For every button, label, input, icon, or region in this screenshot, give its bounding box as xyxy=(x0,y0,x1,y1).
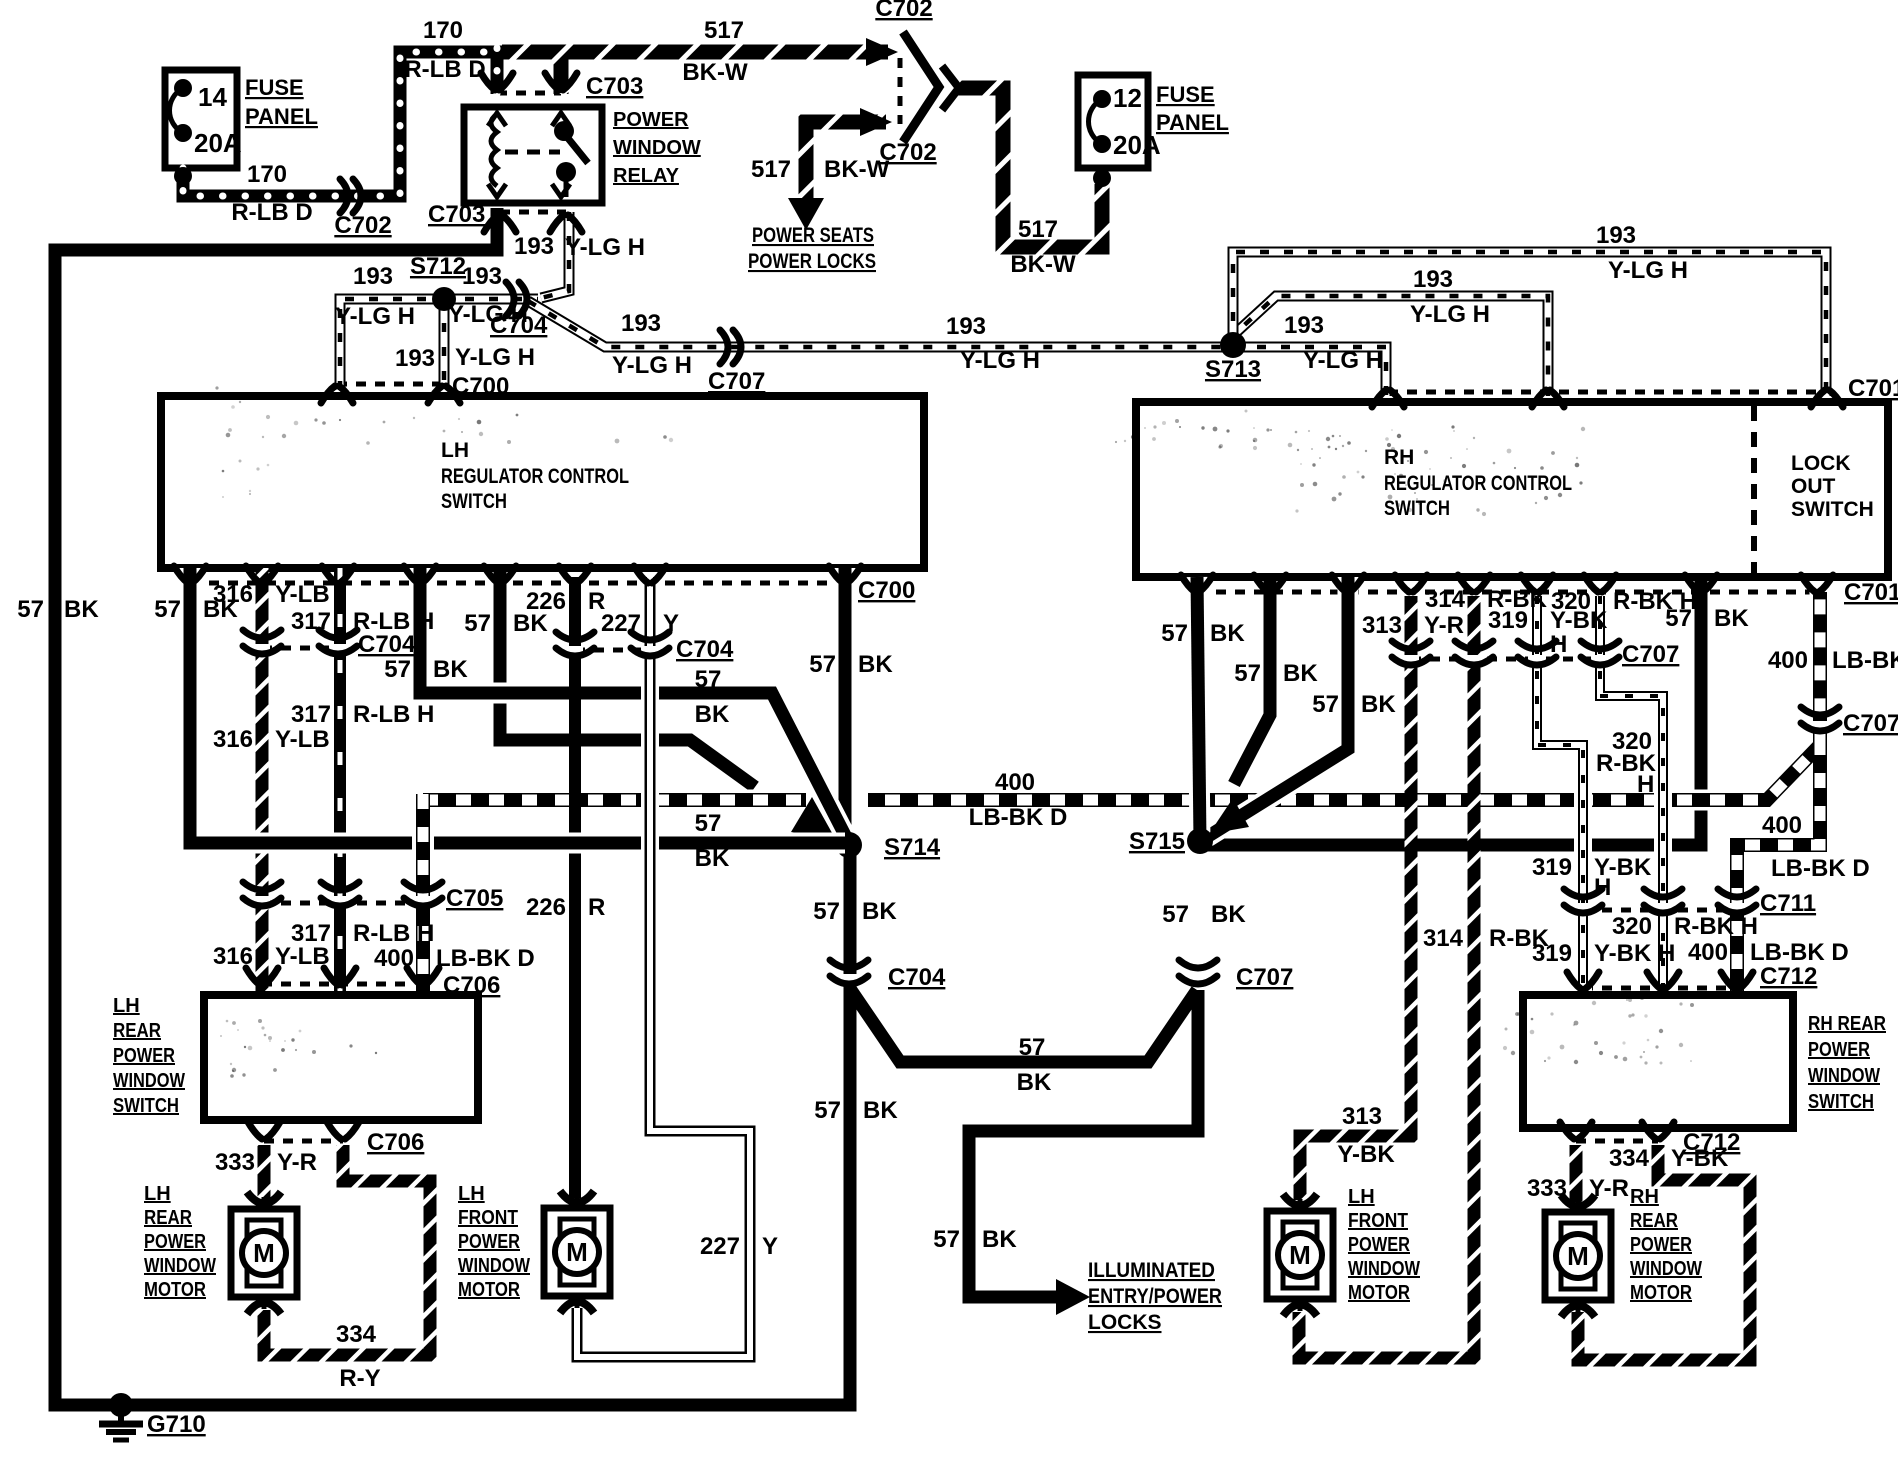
C700 top row dashed link xyxy=(337,382,444,387)
relay coil xyxy=(491,114,497,186)
svg-text:BK: BK xyxy=(1361,691,1396,718)
ground G710 symbol xyxy=(109,1393,133,1417)
svg-text:LB-BK D: LB-BK D xyxy=(969,804,1068,831)
svg-text:REAR: REAR xyxy=(1630,1210,1678,1232)
svg-text:RH REAR: RH REAR xyxy=(1808,1013,1886,1035)
svg-text:FRONT: FRONT xyxy=(458,1207,518,1229)
svg-text:G710: G710 xyxy=(147,1411,206,1438)
svg-text:57: 57 xyxy=(813,898,840,925)
svg-text:316: 316 xyxy=(213,943,253,970)
svg-text:334: 334 xyxy=(1609,1145,1650,1172)
svg-text:POWER: POWER xyxy=(1808,1039,1870,1061)
fuse 12 symbol xyxy=(1093,90,1111,108)
svg-text:193: 193 xyxy=(514,233,554,260)
wire 193 Y-LG H S713 right branch to C701 xyxy=(1233,347,1386,396)
LH regulator control switch box xyxy=(161,396,924,568)
wire 227 Y LH pin 7 to LH front window motor (hollow) xyxy=(577,577,750,1357)
svg-text:REGULATOR CONTROL: REGULATOR CONTROL xyxy=(1384,472,1572,495)
svg-text:Y-LG H: Y-LG H xyxy=(335,303,415,330)
wire 313 Y-BK RH pin 4 to LH front motor (right) xyxy=(1300,596,1411,1200)
arrow to illuminated entry/power locks xyxy=(1056,1279,1090,1315)
svg-text:57: 57 xyxy=(1665,605,1692,632)
svg-text:Y-R: Y-R xyxy=(1589,1175,1629,1202)
svg-text:C706: C706 xyxy=(443,972,500,999)
svg-text:POWER: POWER xyxy=(613,109,689,131)
LH front power window motor (RH circuit) pins xyxy=(1283,1194,1317,1206)
svg-text:BK: BK xyxy=(433,656,468,683)
C704 row dashed link (226/227) xyxy=(575,648,650,653)
svg-text:SWITCH: SWITCH xyxy=(441,490,507,513)
wire 334 Y-BK RH rear switch to RH rear motor bottom xyxy=(1578,1145,1750,1360)
C703 bottom pins xyxy=(484,215,498,232)
svg-text:57: 57 xyxy=(1234,660,1261,687)
svg-text:S713: S713 xyxy=(1205,356,1261,383)
C701 bottom row dashed link xyxy=(1197,590,1817,595)
wire 517 BK-W C702 to fuse panel 2 xyxy=(955,88,1102,247)
wire 57 BK S715 up to RH pin 1 xyxy=(1197,577,1200,841)
svg-text:57: 57 xyxy=(695,666,722,693)
C711 pairs xyxy=(1575,903,1591,911)
svg-text:MOTOR: MOTOR xyxy=(458,1279,520,1301)
LH front power window motor (RH circuit) armature xyxy=(1283,1222,1317,1242)
svg-text:Y-LB: Y-LB xyxy=(275,726,330,753)
wire 170 R-LB D relay drop xyxy=(491,48,504,94)
svg-text:PANEL: PANEL xyxy=(245,104,318,129)
wire 193 Y-LG H relay to C704 xyxy=(541,212,569,298)
svg-text:POWER LOCKS: POWER LOCKS xyxy=(748,250,876,273)
svg-text:57: 57 xyxy=(1312,691,1339,718)
svg-text:LB-BK D: LB-BK D xyxy=(1771,855,1870,882)
svg-text:227: 227 xyxy=(601,610,641,637)
svg-text:S715: S715 xyxy=(1129,828,1185,855)
svg-text:317: 317 xyxy=(291,701,331,728)
svg-text:Y-BK: Y-BK xyxy=(1337,1141,1395,1168)
wire 226 R LH pin 6 to LH front window motor xyxy=(569,577,581,1198)
svg-text:WINDOW: WINDOW xyxy=(144,1255,216,1277)
svg-text:R-LB H: R-LB H xyxy=(353,701,434,728)
svg-text:BK: BK xyxy=(695,845,730,872)
wire 400 LB-BK D branch to C711/C712 xyxy=(1737,740,1820,991)
svg-text:20A: 20A xyxy=(194,128,242,158)
LH front power window motor pins xyxy=(560,1191,594,1203)
svg-text:Y-LG H: Y-LG H xyxy=(565,234,645,261)
svg-text:SWITCH: SWITCH xyxy=(1791,498,1874,521)
RH rear power window switch box xyxy=(1523,995,1793,1128)
svg-text:Y-R: Y-R xyxy=(277,1149,317,1176)
C705 pairs xyxy=(254,896,270,904)
svg-text:BK: BK xyxy=(862,898,897,925)
LH front power window motor armature xyxy=(560,1219,594,1239)
svg-text:C707: C707 xyxy=(1622,641,1679,668)
C707 pair on 400 to lock out switch xyxy=(1812,721,1828,729)
C707 pairs on RH wires xyxy=(1403,655,1419,663)
wire 170 R-LB D from fuse panel 1 to relay xyxy=(183,52,506,196)
relay bottom arrows xyxy=(488,184,506,197)
svg-text:PANEL: PANEL xyxy=(1156,110,1229,135)
svg-text:Y-LG H: Y-LG H xyxy=(960,347,1040,374)
fuse panel 1 box (fuse 14) xyxy=(165,70,237,168)
C703 top row dashed link xyxy=(497,91,561,96)
svg-text:517: 517 xyxy=(1018,216,1058,243)
svg-text:LH: LH xyxy=(144,1183,171,1205)
svg-text:57: 57 xyxy=(809,651,836,678)
svg-text:RH: RH xyxy=(1630,1186,1659,1208)
C707 row dashed link (RH) xyxy=(1411,657,1600,662)
svg-text:193: 193 xyxy=(462,263,502,290)
svg-text:226: 226 xyxy=(526,588,566,615)
svg-text:226: 226 xyxy=(526,894,566,921)
svg-text:LOCKS: LOCKS xyxy=(1088,1311,1162,1334)
svg-text:170: 170 xyxy=(247,161,287,188)
C700 bottom pin row under LH switch xyxy=(174,566,188,583)
svg-text:400: 400 xyxy=(1688,939,1728,966)
wire 193 Y-LG H S713 middle branch to C701 xyxy=(1227,296,1548,396)
arrowhead wire 517 into C702 top xyxy=(866,38,898,66)
C706 lower row dashed link xyxy=(264,1139,343,1144)
svg-text:C704: C704 xyxy=(676,636,734,663)
C711 row dashed link xyxy=(1583,908,1737,913)
svg-text:316: 316 xyxy=(213,726,253,753)
C706 row dashed link xyxy=(262,982,423,987)
svg-text:BK: BK xyxy=(1283,660,1318,687)
svg-text:57: 57 xyxy=(814,1097,841,1124)
svg-text:BK: BK xyxy=(1017,1069,1052,1096)
svg-text:C704: C704 xyxy=(490,312,548,339)
svg-text:193: 193 xyxy=(1413,266,1453,293)
svg-text:FUSE: FUSE xyxy=(1156,82,1215,107)
svg-text:M: M xyxy=(253,1238,275,1268)
svg-text:C706: C706 xyxy=(367,1129,424,1156)
C704 pair on 316/317 xyxy=(254,644,270,652)
svg-text:Y-LB: Y-LB xyxy=(275,581,330,608)
LH rear power window motor armature xyxy=(247,1220,281,1240)
relay contact xyxy=(554,121,574,141)
C704 pair on 226/227 xyxy=(567,646,583,654)
C705 row dashed link xyxy=(262,901,423,906)
svg-text:BK: BK xyxy=(695,701,730,728)
svg-text:M: M xyxy=(566,1237,588,1267)
C712 lower pins under RH rear switch xyxy=(1560,1122,1574,1139)
relay link (dashed) xyxy=(505,150,560,155)
svg-text:Y-BK H: Y-BK H xyxy=(1594,940,1675,967)
C701 bottom pin row under RH switch xyxy=(1181,575,1195,592)
wire 517 BK-W to power seats/power locks xyxy=(806,122,886,198)
svg-text:M: M xyxy=(1567,1241,1589,1271)
wire 320 R-BK H RH pin 7 to RH rear switch xyxy=(1600,596,1663,991)
svg-text:C700: C700 xyxy=(858,577,915,604)
svg-text:WINDOW: WINDOW xyxy=(1348,1258,1420,1280)
C702 connector dashed link xyxy=(898,58,903,124)
svg-text:C704: C704 xyxy=(888,964,946,991)
svg-text:57: 57 xyxy=(17,596,44,623)
wire 333 Y-R LH rear switch to LH rear motor xyxy=(258,1145,271,1200)
svg-text:C707: C707 xyxy=(708,368,765,395)
wire 517 BK-W relay to C702 xyxy=(502,45,888,60)
arrow to power seats xyxy=(788,198,824,230)
C707 inline connector on wire 193 xyxy=(720,330,728,364)
svg-text:Y-BK: Y-BK xyxy=(1671,1145,1729,1172)
svg-text:OUT: OUT xyxy=(1791,475,1836,498)
wire 57 BK RH pin 3 diagonal to S715 (over bus) xyxy=(1207,577,1348,837)
svg-text:193: 193 xyxy=(1596,222,1636,249)
svg-text:RH: RH xyxy=(1384,446,1414,469)
wire 57 BK LH pin 4 to S714 (over bus) xyxy=(420,568,849,843)
LH rear power window motor pins xyxy=(247,1192,281,1204)
C704 inline connector on wire 193 xyxy=(506,282,514,316)
svg-text:R-Y: R-Y xyxy=(339,1365,380,1392)
C701 top row dashed link xyxy=(1388,390,1827,395)
svg-text:LOCK: LOCK xyxy=(1791,452,1851,475)
svg-text:POWER: POWER xyxy=(1348,1234,1410,1256)
fuse panel 2 box (fuse 12) xyxy=(1078,75,1148,168)
svg-text:WINDOW: WINDOW xyxy=(458,1255,530,1277)
svg-text:C702: C702 xyxy=(334,212,391,239)
svg-text:LH: LH xyxy=(1348,1186,1375,1208)
wire 57 BK RH pin 8 to bottom run to S715 xyxy=(1205,577,1701,845)
wire 517 BK-W relay stub xyxy=(554,46,569,94)
C703 bottom row dashed link xyxy=(500,210,566,215)
wire 57 BK bar LH pin 1 to S714 xyxy=(190,568,845,843)
svg-text:193: 193 xyxy=(621,310,661,337)
arrowhead into S714 xyxy=(791,797,836,840)
svg-text:C705: C705 xyxy=(446,885,503,912)
svg-text:12: 12 xyxy=(1113,83,1142,113)
svg-text:WINDOW: WINDOW xyxy=(1630,1258,1702,1280)
svg-text:317: 317 xyxy=(291,608,331,635)
svg-text:314: 314 xyxy=(1425,586,1466,613)
svg-text:FUSE: FUSE xyxy=(245,75,304,100)
svg-text:Y: Y xyxy=(762,1233,778,1260)
svg-text:BK: BK xyxy=(1714,605,1749,632)
LH rear power window switch box xyxy=(204,995,478,1120)
C707 pair at S715 branch xyxy=(1190,974,1206,982)
svg-text:517: 517 xyxy=(751,156,791,183)
svg-text:C712: C712 xyxy=(1760,963,1817,990)
svg-text:C707: C707 xyxy=(1236,964,1293,991)
C701 top pins xyxy=(1372,390,1386,407)
wire 57 BK RH pin 2 diagonal into S715 (under bus) xyxy=(1234,577,1270,784)
svg-text:Y-LG H: Y-LG H xyxy=(1608,257,1688,284)
svg-text:C702: C702 xyxy=(875,0,932,22)
C704 pair at S714 branch xyxy=(841,974,857,982)
svg-text:REAR: REAR xyxy=(144,1207,192,1229)
svg-text:57: 57 xyxy=(1019,1034,1046,1061)
svg-text:BK-W: BK-W xyxy=(682,59,748,86)
svg-text:193: 193 xyxy=(946,313,986,340)
LH rear power window motor box xyxy=(231,1209,297,1297)
svg-text:LB-BK D: LB-BK D xyxy=(1750,939,1849,966)
svg-text:400: 400 xyxy=(1768,647,1808,674)
C703 top pins xyxy=(481,73,495,90)
scan noise speckles xyxy=(1385,437,1389,441)
svg-text:C703: C703 xyxy=(586,73,643,100)
svg-text:Y-LG H: Y-LG H xyxy=(1410,301,1490,328)
svg-text:R-BK H: R-BK H xyxy=(1674,913,1758,940)
svg-text:C711: C711 xyxy=(1760,890,1816,917)
svg-text:227: 227 xyxy=(700,1233,740,1260)
svg-text:LB-BK D: LB-BK D xyxy=(436,945,535,972)
svg-text:334: 334 xyxy=(336,1321,377,1348)
svg-text:LH: LH xyxy=(113,995,140,1017)
wire 57 BK LH pin 8 to S714 (over bus) xyxy=(835,568,856,846)
svg-text:Y-LB: Y-LB xyxy=(275,943,330,970)
svg-text:320: 320 xyxy=(1551,588,1591,615)
C712 top row dashed link xyxy=(1583,986,1737,991)
wire 57 BK illuminated entry branch from C707 xyxy=(969,990,1198,1297)
svg-text:193: 193 xyxy=(395,345,435,372)
svg-text:R: R xyxy=(588,894,605,921)
C712 pins into RH rear switch xyxy=(1567,972,1581,989)
fuse 14 symbol xyxy=(174,79,192,97)
wire 317 R-LB H LH pin 3 to LH rear switch xyxy=(334,568,346,991)
power window relay box xyxy=(464,107,602,203)
svg-text:57: 57 xyxy=(695,810,722,837)
svg-text:REGULATOR CONTROL: REGULATOR CONTROL xyxy=(441,465,629,488)
svg-text:57: 57 xyxy=(464,610,491,637)
RH rear power window motor pins xyxy=(1561,1195,1595,1207)
svg-text:MOTOR: MOTOR xyxy=(1630,1282,1692,1304)
svg-text:320: 320 xyxy=(1612,913,1652,940)
svg-text:C700: C700 xyxy=(452,373,509,400)
C700 bottom row dashed link xyxy=(190,581,845,586)
svg-text:BK: BK xyxy=(64,596,99,623)
svg-text:S714: S714 xyxy=(884,834,941,861)
svg-text:REAR: REAR xyxy=(113,1020,161,1042)
svg-text:C707: C707 xyxy=(1843,710,1898,737)
svg-text:SWITCH: SWITCH xyxy=(1384,497,1450,520)
svg-text:313: 313 xyxy=(1362,612,1402,639)
LH front power window motor box xyxy=(544,1208,610,1296)
svg-text:Y-LG H: Y-LG H xyxy=(612,352,692,379)
svg-text:SWITCH: SWITCH xyxy=(1808,1091,1874,1113)
svg-text:POWER SEATS: POWER SEATS xyxy=(752,224,874,247)
svg-text:20A: 20A xyxy=(1113,130,1161,160)
svg-text:313: 313 xyxy=(1342,1103,1382,1130)
svg-text:333: 333 xyxy=(1527,1175,1567,1202)
C712 lower row dashed link xyxy=(1576,1139,1658,1144)
svg-text:319: 319 xyxy=(1488,607,1528,634)
junction S714 xyxy=(836,832,862,858)
C702 inline connector on wire 170 xyxy=(340,179,348,213)
svg-text:MOTOR: MOTOR xyxy=(1348,1282,1410,1304)
svg-text:POWER: POWER xyxy=(113,1045,175,1067)
svg-text:400: 400 xyxy=(1762,812,1802,839)
svg-text:LH: LH xyxy=(458,1183,485,1205)
svg-text:517: 517 xyxy=(704,17,744,44)
wire 319 Y-BK H RH pin 6 to RH rear switch xyxy=(1537,596,1583,991)
wire 400 LB-BK D left vertical to LH rear switch xyxy=(412,814,434,991)
svg-text:R-LB H: R-LB H xyxy=(353,920,434,947)
svg-text:57: 57 xyxy=(1162,901,1189,928)
svg-text:ENTRY/POWER: ENTRY/POWER xyxy=(1088,1285,1222,1308)
junction S715 xyxy=(1187,828,1213,854)
wire 193 Y-LG H S712 drop to C700 xyxy=(439,299,450,390)
C700 top pins xyxy=(321,386,335,403)
relay top arrows xyxy=(488,113,506,126)
wire 193 Y-LG H S712 bus + diagonal + long run to S713 xyxy=(340,299,538,390)
svg-text:57: 57 xyxy=(1161,620,1188,647)
svg-text:319: 319 xyxy=(1532,940,1572,967)
svg-text:BK: BK xyxy=(1210,620,1245,647)
LH front power window motor (RH circuit) box xyxy=(1267,1211,1333,1299)
wire 334 R-Y LH rear switch to LH rear motor bottom xyxy=(264,1145,430,1355)
wire 400 LB-BK D main bus to lock out switch xyxy=(423,592,1820,800)
svg-text:57: 57 xyxy=(384,656,411,683)
svg-text:WINDOW: WINDOW xyxy=(613,137,701,159)
svg-text:R-LB D: R-LB D xyxy=(404,56,485,83)
svg-text:193: 193 xyxy=(353,263,393,290)
C706 pins into LH rear switch xyxy=(246,968,260,985)
svg-text:H: H xyxy=(1594,874,1611,901)
svg-text:333: 333 xyxy=(215,1149,255,1176)
svg-text:BK-W: BK-W xyxy=(1010,251,1076,278)
svg-text:C704: C704 xyxy=(358,631,416,658)
svg-text:POWER: POWER xyxy=(144,1231,206,1253)
RH rear power window motor armature xyxy=(1561,1223,1595,1243)
wire 316 Y-LB LH pin 2 to LH rear switch xyxy=(256,568,269,991)
wire 314 R-BK RH pin 5 to LH front motor bottom (right) xyxy=(1299,596,1474,1358)
svg-text:Y-LG H: Y-LG H xyxy=(1303,347,1383,374)
svg-text:314: 314 xyxy=(1423,925,1464,952)
svg-text:H: H xyxy=(1637,771,1654,798)
wire 57 BK main ground run: relay - left edge - bottom - S714 xyxy=(55,208,850,1405)
svg-text:FRONT: FRONT xyxy=(1348,1210,1408,1232)
svg-text:POWER: POWER xyxy=(458,1231,520,1253)
svg-text:57: 57 xyxy=(154,596,181,623)
arrowhead wire 517 into C702 bottom xyxy=(860,108,892,136)
svg-text:57: 57 xyxy=(933,1226,960,1253)
svg-text:POWER: POWER xyxy=(1630,1234,1692,1256)
svg-text:316: 316 xyxy=(213,581,253,608)
wire 57 BK bridge C704 to C707 xyxy=(851,990,1197,1062)
lock out switch divider (dashed) xyxy=(1751,406,1757,573)
svg-text:S712: S712 xyxy=(410,253,466,280)
svg-text:170: 170 xyxy=(423,17,463,44)
svg-text:WINDOW: WINDOW xyxy=(113,1070,185,1092)
svg-text:C701: C701 xyxy=(1848,375,1898,402)
C702 connector chevrons xyxy=(903,32,939,142)
RH rear power window motor box xyxy=(1545,1212,1611,1300)
svg-text:Y-R: Y-R xyxy=(1424,612,1464,639)
svg-text:MOTOR: MOTOR xyxy=(144,1279,206,1301)
wire 333 Y-R RH rear switch to RH rear motor xyxy=(1570,1145,1583,1202)
bus gap at S714 xyxy=(806,785,868,815)
svg-text:BK: BK xyxy=(858,651,893,678)
svg-text:M: M xyxy=(1289,1240,1311,1270)
junction S713 xyxy=(1220,332,1246,358)
svg-text:WINDOW: WINDOW xyxy=(1808,1065,1880,1087)
svg-text:C701: C701 xyxy=(1844,579,1898,606)
svg-text:Y-LG H: Y-LG H xyxy=(455,344,535,371)
svg-text:LH: LH xyxy=(441,439,469,462)
svg-text:ILLUMINATED: ILLUMINATED xyxy=(1088,1259,1215,1282)
wire 57 BK LH pin 5 diagonal into S714 (under bus) xyxy=(500,568,755,787)
svg-text:R-LB D: R-LB D xyxy=(231,199,312,226)
svg-text:SWITCH: SWITCH xyxy=(113,1095,179,1117)
svg-text:LB-BK D: LB-BK D xyxy=(1832,647,1898,674)
svg-text:H: H xyxy=(1550,631,1567,658)
C706 lower pins under LH rear switch xyxy=(248,1122,262,1139)
svg-text:193: 193 xyxy=(1284,312,1324,339)
svg-text:400: 400 xyxy=(374,945,414,972)
svg-text:RELAY: RELAY xyxy=(613,165,680,187)
svg-text:14: 14 xyxy=(198,82,227,112)
junction S712 xyxy=(432,287,456,311)
svg-text:Y: Y xyxy=(663,610,679,637)
svg-text:319: 319 xyxy=(1532,854,1572,881)
svg-text:BK: BK xyxy=(863,1097,898,1124)
svg-text:C703: C703 xyxy=(428,201,485,228)
